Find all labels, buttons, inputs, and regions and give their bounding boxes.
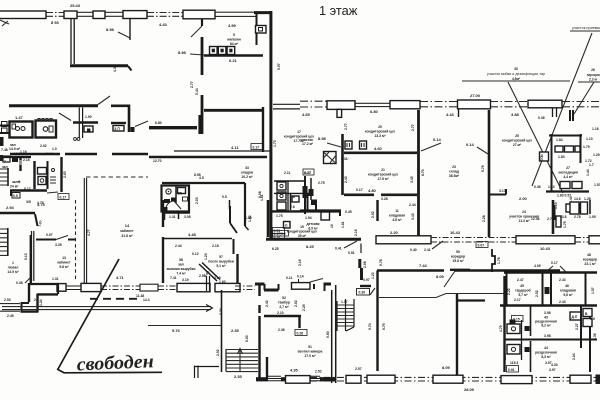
dashed partition x75.5 [75,200,77,281]
diagonal callout [135,121,148,127]
svg-text:1: 1 [12,261,14,265]
wall x221 vertical [221,290,223,372]
gamma wall vertical [128,105,131,133]
svg-text:2.50: 2.50 [199,274,206,278]
svg-text:0.17: 0.17 [253,146,260,150]
svg-text:2.53: 2.53 [4,298,11,302]
svg-text:2.63: 2.63 [63,171,67,178]
svg-text:вентил камера: вентил камера [298,350,323,354]
diagonal tick [98,96,110,105]
svg-text:0.30: 0.30 [359,291,366,295]
wall x245 [244,183,246,226]
svg-text:6.9 м²: 6.9 м² [308,227,318,231]
svg-text:0.07: 0.07 [478,244,485,248]
svg-text:0.45: 0.45 [345,210,352,214]
svg-text:2.17: 2.17 [514,298,521,302]
wall x530 segments [530,306,532,372]
svg-text:0.14: 0.14 [46,152,53,156]
svg-text:5.74: 5.74 [368,323,372,330]
double wall x331-336 down [332,285,336,383]
svg-text:10: 10 [330,224,334,228]
svg-text:17.0 м²: 17.0 м² [304,354,316,358]
wall x237.5 [236,254,238,283]
svg-text:24 м²: 24 м² [10,185,19,189]
svg-text:3.98: 3.98 [544,311,551,315]
furniture [556,216,561,227]
window block A1 [0,11,46,19]
svg-text:0.36: 0.36 [538,116,545,120]
svg-text:14.3: 14.3 [143,298,150,302]
window block A4 [123,11,147,19]
window blocks bottom [346,375,361,383]
boxed dims 0.17 0.25 [273,231,289,237]
long thin wall y151 [174,150,270,152]
svg-text:1.05: 1.05 [589,215,596,219]
double line [66,286,81,290]
room K2 outline [36,121,57,138]
svg-text:2.41: 2.41 [424,248,431,252]
diagonal from stub [191,26,202,37]
wall end tick [128,66,132,71]
П box [284,222,291,229]
black fixture mark [510,320,516,325]
svg-text:8.98: 8.98 [178,50,187,55]
svg-text:2.77: 2.77 [344,123,348,130]
svg-text:кабинет: кабинет [120,229,134,233]
furniture row [555,146,563,152]
svg-text:50: 50 [456,250,460,254]
svg-text:2.16: 2.16 [23,158,30,162]
gamma wall lower [111,122,126,124]
svg-text:2.11: 2.11 [284,171,291,175]
svg-text:12.70: 12.70 [153,159,162,163]
svg-text:4,5м²: 4,5м² [512,77,521,81]
svg-text:0.97: 0.97 [46,233,53,237]
svg-text:4.30: 4.30 [113,65,117,72]
svg-text:коридор: коридор [451,255,465,259]
svg-text:6.79: 6.79 [382,323,386,330]
fixture G [43,127,48,132]
svg-text:2.78: 2.78 [574,215,581,219]
svg-text:8.09: 8.09 [442,365,451,370]
svg-text:31.8 м²: 31.8 м² [121,234,133,238]
dashdot [101,286,140,290]
wall x34.5 [33,161,35,189]
vertical cap x200 [198,115,201,134]
right wall x590 [589,314,591,372]
svg-text:7.44: 7.44 [419,263,428,268]
svg-text:0.17: 0.17 [60,196,67,200]
right room marks [50,177,56,183]
wall x32.5 [32,231,34,281]
wall B y127.5 [149,126,197,129]
main wall x417.5 [417,110,420,236]
svg-text:2.52: 2.52 [371,211,375,218]
svg-text:15.8 м²: 15.8 м² [452,259,464,263]
svg-text:13: 13 [62,256,66,260]
top-right corner cap of left building [254,11,272,14]
svg-text:кондитерский цех: кондитерский цех [365,130,395,134]
svg-text:2.43: 2.43 [559,278,566,282]
room 56 right wall [456,293,458,375]
wall x551.5 [551,134,553,192]
sill window C3 right [589,236,600,244]
svg-text:3.97: 3.97 [549,368,556,372]
rooms 55/56 top walls [162,200,164,227]
wall y305.5 [500,304,597,306]
svg-text:8.25: 8.25 [306,244,315,249]
svg-text:115.3: 115.3 [510,361,518,365]
wall y183 over WC cluster [162,182,245,184]
svg-text:2.43: 2.43 [344,176,348,183]
svg-text:1.81: 1.81 [341,221,345,228]
svg-text:11: 11 [395,209,399,213]
svg-text:2.75: 2.75 [318,181,325,185]
svg-text:0.91: 0.91 [348,251,355,255]
svg-text:7.48: 7.48 [1,148,8,152]
dashdot [158,286,177,290]
vertical double wall x80 [79,108,82,139]
long corridor dim lines with arrow [2,307,211,310]
sill dashdot joins [431,238,589,243]
svg-text:4.43: 4.43 [446,112,455,117]
svg-text:0.41: 0.41 [335,247,342,251]
window block D1 [57,284,66,292]
svg-text:11.3 м²: 11.3 м² [519,219,531,223]
svg-text:гардероб: гардероб [515,289,531,293]
svg-text:2.35: 2.35 [234,374,243,379]
window block B1 [327,101,355,110]
heavy dashes corridor [90,298,142,300]
svg-text:0.14: 0.14 [433,137,442,142]
svg-text:3.98: 3.98 [544,334,551,338]
svg-text:30: 30 [514,67,518,71]
wall x233.5 [233,239,235,254]
svg-text:3/5: 3/5 [26,200,31,204]
svg-text:1.31: 1.31 [52,277,59,281]
svg-text:2.20: 2.20 [390,230,399,235]
svg-text:зал: зал [2,165,8,169]
svg-text:участок приемки: участок приемки [572,26,600,30]
svg-text:23.1 м²: 23.1 м² [584,262,596,266]
svg-text:4.8 м²: 4.8 м² [392,218,402,222]
svg-text:1.57: 1.57 [591,287,595,294]
свободен diagonal [58,259,119,369]
svg-text:0.70: 0.70 [274,235,281,239]
svg-text:17.2 м²: 17.2 м² [302,142,314,146]
svg-text:39 м²: 39 м² [298,234,307,238]
svg-text:13.2: 13.2 [14,152,21,156]
svg-text:16.43: 16.43 [450,230,461,235]
window block B3 long [458,100,491,109]
svg-text:2.28: 2.28 [482,215,486,222]
svg-text:0.14: 0.14 [466,142,475,147]
svg-text:8.70: 8.70 [421,169,425,176]
wall y154 segments left [10,153,148,155]
svg-text:1.83: 1.83 [548,185,555,189]
svg-text:2.18: 2.18 [212,244,219,248]
svg-text:1.47: 1.47 [15,115,24,120]
svg-text:0.17: 0.17 [356,188,363,192]
svg-text:1.84: 1.84 [556,138,563,142]
svg-text:1.10: 1.10 [554,202,558,209]
vertical double wall x71-74 [71,19,74,64]
svg-text:9.8 м²: 9.8 м² [59,265,69,269]
connector stubs from left building [273,104,300,109]
left cluster hatch closet [0,169,8,185]
small rooms row walls [274,192,310,194]
svg-text:2.22: 2.22 [507,288,511,295]
furniture row 2 [560,182,570,189]
svg-text:детская: детская [306,222,319,226]
svg-text:27 м²: 27 м² [513,143,522,147]
svg-text:45: 45 [520,284,524,288]
svg-text:1.16: 1.16 [592,127,599,131]
room 56 top wall y270.5 [377,269,560,271]
fixture boxes Ц [345,141,352,149]
svg-text:кладовая: кладовая [560,289,576,293]
three display boxes [210,47,218,55]
svg-text:23: 23 [452,165,456,169]
window block D2 [81,283,101,291]
boxed 0.91 [507,366,519,373]
callout diagonal lines [508,82,563,193]
svg-text:2.47: 2.47 [517,278,524,282]
svg-text:17.6 м²: 17.6 м² [377,177,389,181]
svg-text:4.36: 4.36 [593,333,597,340]
svg-text:2.52: 2.52 [535,290,539,297]
svg-text:8 П: 8 П [115,127,121,131]
svg-text:3.08: 3.08 [184,215,191,219]
wall x61.5 [60,157,62,192]
left edge stubs [0,126,9,134]
small box fixtures below [84,126,93,132]
wall x342.5 [341,134,344,195]
svg-text:кладовая: кладовая [389,214,405,218]
fixture box near corner [256,26,267,34]
lower jog wall [38,293,59,295]
svg-text:4.48: 4.48 [188,232,197,237]
stub below block A5 [201,19,203,26]
bottom wall of small rooms [10,189,47,191]
svg-text:1.92: 1.92 [248,215,252,222]
svg-text:4.65: 4.65 [302,112,311,117]
wall y211.5 [272,210,341,212]
svg-text:5.78: 5.78 [379,259,383,266]
stub below B1 [337,109,342,117]
wall stub y286 [360,285,371,287]
svg-text:2.70: 2.70 [547,217,554,221]
svg-text:8,2 м²: 8,2 м² [541,324,551,328]
wall y122.5 [73,121,98,123]
svg-text:12.36: 12.36 [531,217,540,221]
svg-text:51: 51 [308,345,312,349]
DP box [540,152,549,161]
svg-text:6.80: 6.80 [370,109,379,114]
svg-text:2.16: 2.16 [354,229,358,236]
svg-text:57: 57 [219,255,223,259]
wall x85.5 double [84,178,86,283]
window block A5 [183,10,215,19]
svg-text:0.17: 0.17 [305,171,312,175]
svg-text:2.94: 2.94 [6,205,15,210]
svg-text:0.11: 0.11 [286,276,293,280]
svg-text:2.36: 2.36 [278,328,285,332]
dashdot to porch [235,286,255,290]
svg-text:3.19: 3.19 [214,276,221,280]
long wall y239 [266,238,361,241]
svg-text:8,3 м²: 8,3 м² [541,355,551,359]
svg-text:18: 18 [291,195,295,199]
svg-text:14.9 м²: 14.9 м² [7,270,19,274]
svg-text:1.5: 1.5 [590,317,595,321]
svg-text:0.38: 0.38 [16,281,23,285]
svg-text:1.81: 1.81 [260,194,264,201]
hatch square symbol [324,152,337,164]
svg-text:0.26: 0.26 [297,332,304,336]
svg-text:38.5м²: 38.5м² [449,174,460,178]
sill window C1 [376,236,431,244]
zigzag partition [492,249,495,272]
svg-text:3.28: 3.28 [381,197,388,201]
window dashdot segment to corner [215,12,256,16]
tambour 52 left wall segments [258,285,260,380]
svg-text:4.35: 4.35 [290,368,299,373]
stair left [7,228,9,256]
ramp diagonal double [199,263,220,282]
svg-text:7.4 м²: 7.4 м² [176,272,186,276]
svg-text:после вырубки: после вырубки [208,260,234,264]
lower bits [566,204,580,212]
svg-text:1.16: 1.16 [20,150,27,154]
stub x570 [570,110,573,121]
svg-text:коридор: коридор [583,258,597,262]
thin vertical x361 [360,244,362,254]
svg-text:1.29: 1.29 [593,153,600,157]
thick short wall [358,259,361,268]
dashdot band lines [300,101,600,107]
stair arrow up [238,349,243,373]
svg-text:2,3 м: 2,3 м [589,78,598,82]
fixture column [277,182,286,190]
wall y195 [344,194,417,197]
svg-text:2.57: 2.57 [355,367,362,371]
svg-text:1.24: 1.24 [39,299,43,306]
svg-text:14.6: 14.6 [574,197,581,201]
top-left wall y213 [0,212,35,214]
svg-text:3.35: 3.35 [55,243,62,247]
svg-text:1.22: 1.22 [371,272,375,279]
middle rooms column [503,276,505,372]
svg-text:17: 17 [297,130,301,134]
wall x580.5 [580,134,582,163]
corridor thin lines [379,294,504,298]
right edge boxes [583,309,592,317]
arrow head [206,305,213,312]
svg-text:5,6 м²: 5,6 м² [563,293,573,297]
box 8P [113,126,124,132]
svg-text:28.00: 28.00 [464,387,475,392]
svg-text:5,1 м²: 5,1 м² [216,264,226,268]
svg-text:участок мойки и дезинфекции та: участок мойки и дезинфекции тар [487,72,545,76]
svg-text:экспедиция: экспедиция [558,171,578,175]
svg-text:2.6: 2.6 [290,205,295,209]
svg-text:0.91: 0.91 [508,368,515,372]
wall y300.5 stub [457,299,485,301]
bottom-left corner walls [28,283,30,302]
svg-text:5.97: 5.97 [277,63,281,70]
svg-text:кондитерский цех: кондитерский цех [502,139,532,143]
svg-text:5.76: 5.76 [481,165,485,172]
svg-text:10.43: 10.43 [540,246,551,251]
svg-text:2.27: 2.27 [575,323,579,330]
svg-text:0.36: 0.36 [534,185,541,189]
svg-text:20: 20 [378,125,382,129]
window block D4 [177,283,210,291]
svg-text:2.49: 2.49 [7,314,14,318]
dashed corridor y177 [86,176,148,178]
svg-text:6.21: 6.21 [229,58,238,63]
partition y181 [274,180,305,182]
svg-text:кладов: кладов [241,171,253,175]
svg-text:4.09: 4.09 [534,264,541,268]
svg-text:4,4 м²: 4,4 м² [563,175,573,179]
middle fixtures column x36-48 [47,161,49,189]
porch wall left [255,283,265,286]
stair bottom ticks [195,366,220,379]
shop counter wall y55.5 [204,54,263,57]
long wall y105.8 [9,104,98,107]
svg-text:19: 19 [300,225,304,229]
porch column block [292,283,311,290]
svg-text:2.77: 2.77 [411,124,415,131]
diag pointer [59,113,71,121]
svg-text:0.51: 0.51 [274,229,281,233]
wall x163 lower [162,237,164,283]
thick wall segments [256,377,268,381]
svg-text:2.26: 2.26 [302,304,306,311]
wall y66 [70,64,128,67]
svg-text:2.44: 2.44 [175,244,182,248]
svg-text:8.98: 8.98 [318,136,327,141]
wall y191.5 [546,190,589,192]
vertical wall x305 with blob [304,176,306,214]
svg-text:1.83: 1.83 [558,155,565,159]
svg-text:2.68: 2.68 [363,261,367,268]
wall x581 [580,306,582,349]
svg-text:2.08: 2.08 [503,353,507,360]
svg-text:6.80: 6.80 [155,121,162,125]
svg-text:4.60: 4.60 [374,146,383,151]
boxed 0.30 [357,289,370,296]
thin vertical x130 [129,19,131,40]
partition y238.5 [164,238,232,240]
svg-text:27.00: 27.00 [470,93,481,98]
svg-text:выемки вырубки: выемки вырубки [167,267,196,271]
wall x590 top [589,200,591,214]
svg-text:1.78: 1.78 [497,257,501,264]
stub below B4 [553,108,557,117]
svg-text:зал: зал [178,263,184,267]
svg-text:8.98: 8.98 [194,173,201,177]
svg-text:84 м²: 84 м² [230,42,239,46]
svg-text:33: 33 [245,166,249,170]
svg-text:2: 2 [34,298,36,302]
svg-text:1.57: 1.57 [594,183,600,187]
svg-text:1.75: 1.75 [276,214,283,218]
dim lines bottom-left [0,304,20,312]
washbasins [16,127,20,131]
